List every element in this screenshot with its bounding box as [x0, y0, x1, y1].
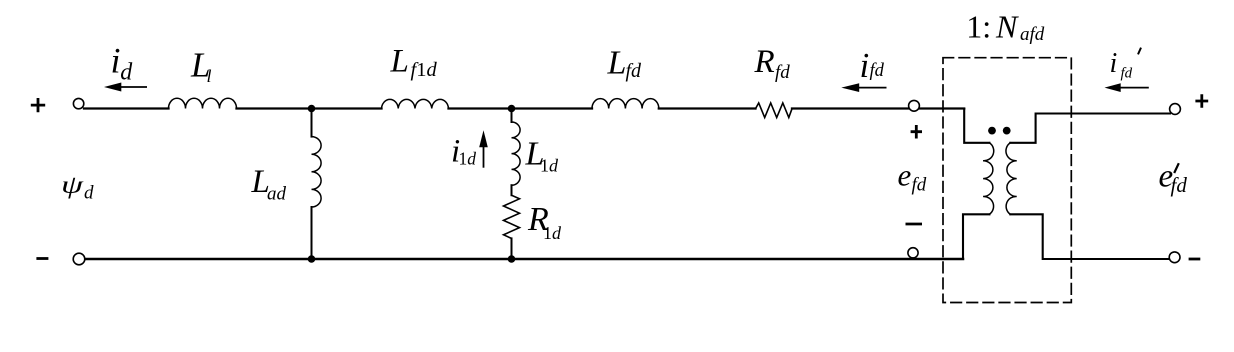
terminal circle psi_d minus	[73, 253, 85, 265]
terminal circle e_fd' minus	[1169, 252, 1180, 263]
transformer primary winding leads	[963, 109, 989, 259]
svg-text:L: L	[607, 45, 627, 82]
terminal circle e_fd plus	[909, 100, 920, 111]
wire between L_l and L_f1d	[237, 107, 382, 109]
transformer polarity dot right	[1003, 127, 1011, 135]
node junction dot bottom R_1d	[508, 255, 516, 263]
svg-text:R: R	[754, 44, 775, 80]
label psi_d	[61, 172, 94, 204]
minus sign right terminal	[1189, 258, 1201, 261]
wire top rail left segment	[84, 107, 169, 109]
label L_ad	[251, 164, 287, 205]
svg-text:fd: fd	[775, 62, 790, 83]
inductor L_ad coil	[312, 137, 322, 207]
transformer secondary bottom lead	[1010, 214, 1169, 259]
plus sign left terminal	[31, 98, 45, 112]
svg-text:i: i	[860, 46, 870, 85]
label i_fd'	[1110, 48, 1142, 82]
label L_f1d	[390, 44, 438, 81]
wire between L_fd and R_fd	[659, 107, 756, 109]
plus sign e_fd	[911, 125, 922, 139]
wire L_1d to R_1d	[511, 185, 513, 195]
current arrow i_fd'	[1105, 83, 1149, 92]
svg-text:afd: afd	[1020, 24, 1045, 45]
wire L_ad branch top	[311, 109, 313, 137]
svg-text:1:: 1:	[966, 8, 991, 44]
inductor L_1d coil	[512, 122, 521, 185]
node junction dot bottom L_ad	[308, 255, 316, 263]
label e_fd	[898, 157, 927, 195]
svg-text:f1d: f1d	[411, 59, 438, 81]
inductor L_fd coil	[592, 99, 659, 109]
svg-text:i: i	[111, 41, 121, 81]
label i_1d	[451, 134, 476, 170]
wire R_1d branch bottom	[511, 238, 513, 259]
plus sign right terminal	[1195, 94, 1208, 107]
label i_fd	[860, 46, 885, 85]
label R_1d	[527, 201, 562, 243]
svg-text:1d: 1d	[459, 149, 477, 169]
terminal circle e_fd' plus	[1170, 104, 1181, 115]
svg-text:ad: ad	[267, 184, 287, 205]
svg-text:fd: fd	[1171, 173, 1188, 197]
svg-text:d: d	[120, 60, 133, 86]
current arrow i_1d	[479, 130, 488, 168]
svg-text:d: d	[84, 183, 94, 204]
svg-text:fd: fd	[870, 61, 885, 81]
minus sign left terminal	[36, 257, 48, 260]
label 1:N_afd	[966, 8, 1044, 44]
svg-text:ψ: ψ	[61, 172, 84, 199]
resistor R_fd zigzag	[756, 103, 793, 118]
node junction dot top L_ad	[308, 105, 316, 113]
svg-text:N: N	[995, 8, 1019, 44]
svg-text:fd: fd	[912, 175, 927, 196]
transformer dashed boundary box	[943, 58, 1071, 303]
current arrow i_d	[104, 83, 147, 92]
terminal circle psi_d plus	[73, 98, 83, 108]
transformer primary coil	[983, 143, 994, 214]
svg-text:fd: fd	[1121, 66, 1133, 82]
node junction dot top L_1d	[508, 105, 516, 113]
current arrow i_fd	[841, 83, 886, 92]
label e_fd'	[1159, 158, 1188, 197]
transformer polarity dot left	[988, 127, 996, 135]
wire between L_f1d and L_fd	[449, 107, 593, 109]
svg-text:l: l	[207, 66, 212, 86]
label L_l	[190, 46, 212, 87]
svg-text:i: i	[1110, 48, 1118, 79]
svg-text:L: L	[390, 44, 409, 80]
label R_fd	[754, 44, 791, 83]
wire L_ad branch bottom	[311, 207, 313, 259]
label L_fd	[607, 45, 643, 83]
transformer secondary coil	[1006, 143, 1017, 214]
inductor L_f1d coil	[382, 99, 449, 108]
svg-text:fd: fd	[626, 60, 643, 82]
svg-text:1d: 1d	[543, 223, 562, 243]
wire bottom rail	[85, 258, 963, 261]
minus sign e_fd	[906, 223, 923, 226]
svg-text:1d: 1d	[540, 156, 559, 176]
wire L_1d branch top	[511, 109, 513, 123]
label L_1d	[525, 136, 560, 176]
svg-text:e: e	[898, 157, 912, 192]
wire R_fd to transformer primary	[792, 107, 964, 109]
resistor R_1d zigzag	[504, 195, 520, 238]
terminal circle e_fd minus	[908, 248, 918, 258]
transformer secondary winding top lead	[1010, 114, 1170, 143]
label i_d	[111, 41, 134, 86]
inductor L_l coil	[169, 98, 237, 108]
